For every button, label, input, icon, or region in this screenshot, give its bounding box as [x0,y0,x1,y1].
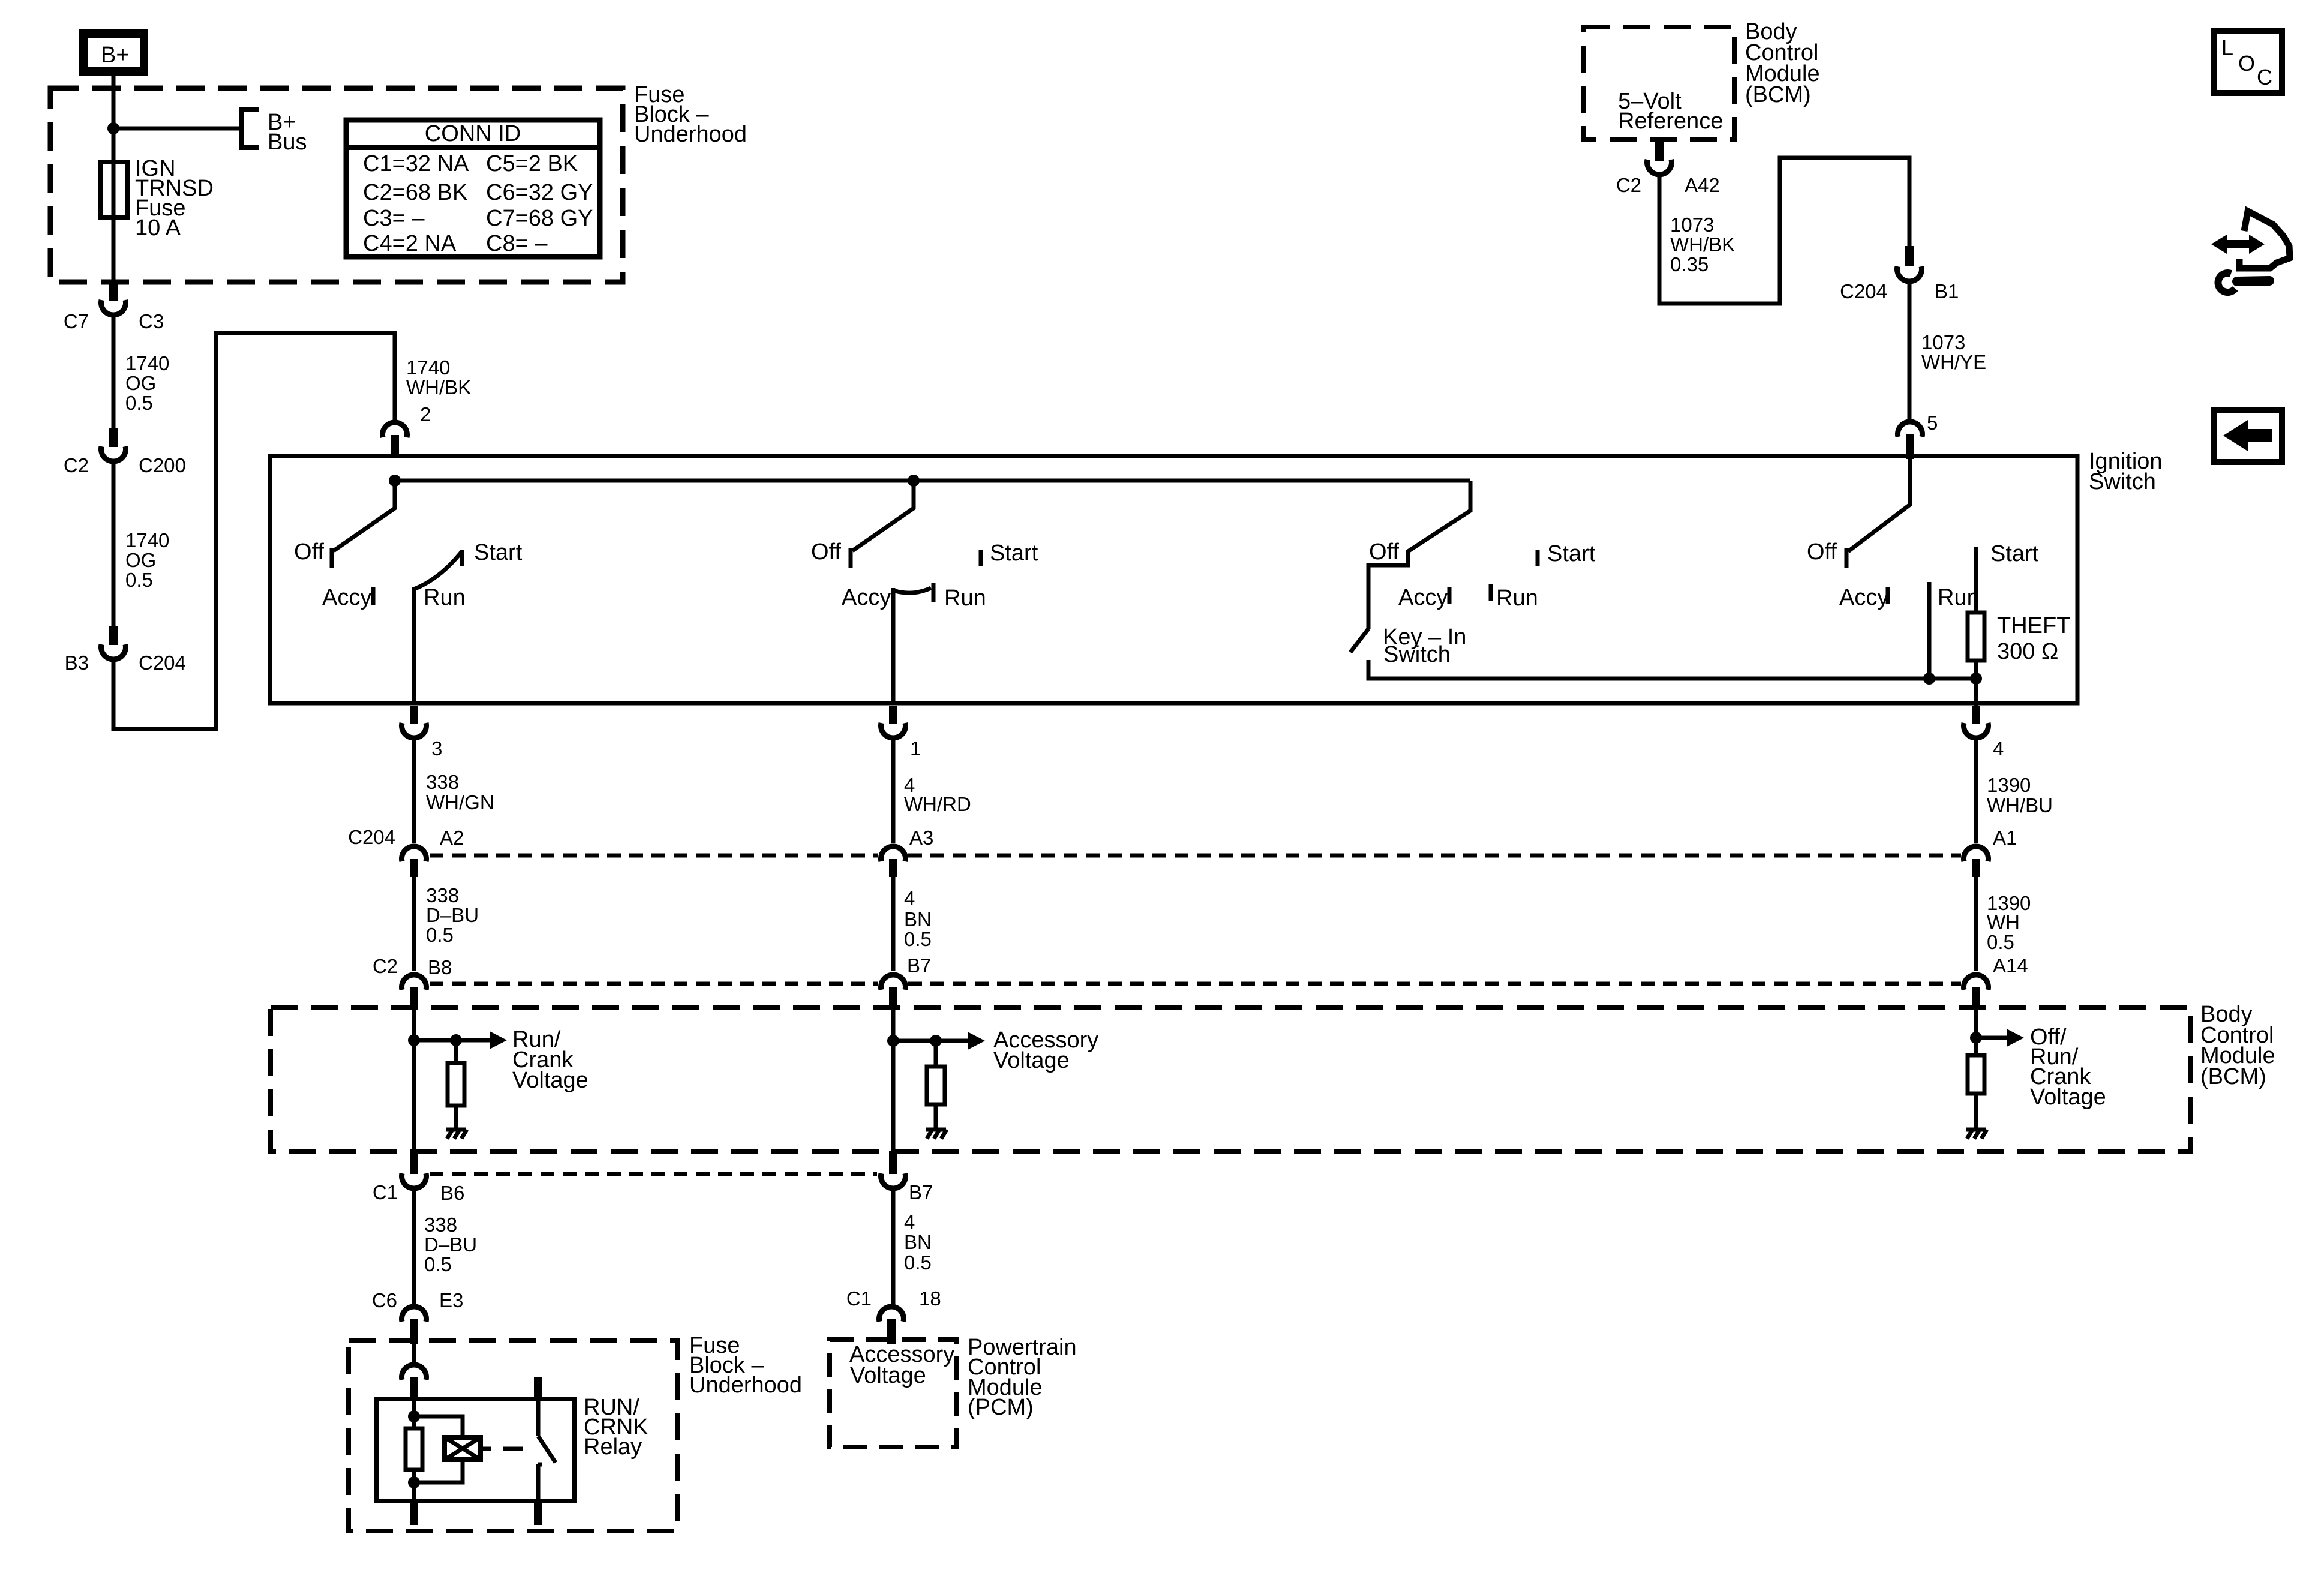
svg-text:C204: C204 [348,826,395,848]
svg-text:C3: C3 [139,310,164,332]
svg-text:2: 2 [420,403,431,425]
svg-text:WH/GN: WH/GN [426,791,494,813]
svg-text:Run: Run [1496,586,1538,611]
svg-text:1740: 1740 [125,529,169,551]
svg-text:Underhood: Underhood [689,1373,802,1398]
svg-text:WH/BK: WH/BK [406,376,471,398]
svg-text:WH/BK: WH/BK [1670,233,1735,256]
svg-text:OG: OG [125,372,156,394]
svg-text:A1: A1 [1993,827,2017,849]
svg-text:Switch: Switch [1383,642,1451,667]
svg-text:D–BU: D–BU [426,904,479,926]
svg-text:0.5: 0.5 [125,392,153,414]
svg-text:0.5: 0.5 [1987,931,2014,953]
svg-text:C6=32 GY: C6=32 GY [486,180,593,205]
svg-text:BN: BN [904,908,932,930]
svg-text:300 Ω: 300 Ω [1997,639,2058,664]
svg-text:C: C [2257,65,2272,89]
svg-text:THEFT: THEFT [1997,613,2070,638]
svg-text:B+: B+ [101,43,130,68]
svg-text:D–BU: D–BU [424,1233,477,1256]
svg-text:B3: B3 [65,652,89,674]
svg-text:Start: Start [1547,541,1596,566]
svg-text:(PCM): (PCM) [968,1395,1034,1420]
svg-text:Accy: Accy [322,585,371,610]
svg-text:Run: Run [1938,585,1980,610]
svg-text:338: 338 [426,771,459,793]
svg-text:B1: B1 [1935,280,1959,302]
svg-text:Start: Start [1990,541,2039,566]
svg-text:WH/YE: WH/YE [1921,351,1986,373]
svg-text:E3: E3 [439,1289,463,1311]
svg-text:CONN ID: CONN ID [425,121,521,146]
svg-text:0.5: 0.5 [424,1253,452,1275]
svg-text:C7=68 GY: C7=68 GY [486,206,593,231]
svg-text:4: 4 [904,1211,915,1233]
svg-text:Off: Off [294,539,324,565]
svg-text:1740: 1740 [406,356,450,379]
svg-text:C1: C1 [373,1181,398,1203]
svg-text:Switch: Switch [2089,469,2156,494]
svg-text:0.5: 0.5 [426,924,454,946]
svg-text:Start: Start [474,540,523,565]
svg-text:L: L [2221,35,2233,60]
svg-text:(BCM): (BCM) [1745,82,1811,107]
svg-text:C1: C1 [846,1287,872,1310]
svg-text:OG: OG [125,549,156,571]
svg-text:Off: Off [1807,539,1837,565]
svg-text:C4=2 NA: C4=2 NA [363,231,457,256]
svg-text:Run: Run [424,585,466,610]
svg-text:B7: B7 [909,1181,933,1203]
svg-text:A2: A2 [440,827,464,849]
svg-text:Bus: Bus [268,130,307,155]
svg-text:C6: C6 [372,1289,397,1311]
svg-text:WH/BU: WH/BU [1987,794,2053,816]
svg-text:A3: A3 [909,827,933,849]
svg-text:Off: Off [811,539,841,565]
svg-text:Voltage: Voltage [993,1048,1070,1073]
svg-text:1740: 1740 [125,352,169,374]
svg-text:B6: B6 [440,1182,464,1204]
svg-text:3: 3 [431,737,442,760]
svg-text:Accy: Accy [1839,585,1888,610]
svg-text:Voltage: Voltage [850,1363,926,1388]
svg-text:Voltage: Voltage [2030,1085,2106,1110]
svg-text:C2: C2 [373,955,398,977]
svg-text:1073: 1073 [1670,214,1714,236]
svg-text:1073: 1073 [1921,331,1965,353]
svg-text:1: 1 [910,737,921,760]
svg-text:C2: C2 [1616,174,1641,196]
svg-text:(BCM): (BCM) [2200,1064,2266,1089]
svg-text:C200: C200 [139,454,186,476]
svg-text:A14: A14 [1993,954,2028,977]
svg-text:Start: Start [990,541,1038,566]
svg-text:338: 338 [426,884,459,906]
svg-text:Run: Run [944,586,986,611]
svg-text:C3= –: C3= – [363,206,425,231]
svg-text:0.35: 0.35 [1670,253,1709,275]
svg-text:C204: C204 [1840,280,1887,302]
svg-text:0.5: 0.5 [904,928,932,950]
svg-text:1390: 1390 [1987,774,2031,796]
svg-text:WH: WH [1987,911,2020,933]
svg-text:18: 18 [919,1287,941,1310]
svg-text:5: 5 [1927,412,1938,434]
svg-text:C1=32 NA: C1=32 NA [363,151,469,176]
svg-text:Relay: Relay [584,1434,642,1460]
svg-text:Reference: Reference [1618,109,1723,134]
svg-text:C2=68 BK: C2=68 BK [363,180,467,205]
svg-text:B8: B8 [428,956,452,978]
svg-text:B7: B7 [907,954,931,977]
svg-text:4: 4 [904,887,915,909]
svg-text:4: 4 [1993,737,2004,760]
svg-text:C204: C204 [139,652,186,674]
svg-text:10 A: 10 A [135,215,181,241]
svg-text:Underhood: Underhood [634,122,747,147]
svg-text:Accy: Accy [1398,585,1448,610]
svg-text:Accy: Accy [842,585,891,610]
svg-text:BN: BN [904,1231,932,1253]
svg-text:C2: C2 [64,454,89,476]
svg-text:C5=2 BK: C5=2 BK [486,151,578,176]
svg-text:0.5: 0.5 [125,569,153,591]
svg-text:Voltage: Voltage [512,1068,588,1093]
svg-text:C8= –: C8= – [486,231,548,256]
svg-text:C7: C7 [64,310,89,332]
svg-text:Off: Off [1369,539,1399,565]
svg-text:O: O [2238,51,2255,76]
svg-text:A42: A42 [1685,174,1720,196]
svg-text:0.5: 0.5 [904,1251,932,1274]
svg-text:WH/RD: WH/RD [904,793,971,815]
svg-text:338: 338 [424,1214,457,1236]
